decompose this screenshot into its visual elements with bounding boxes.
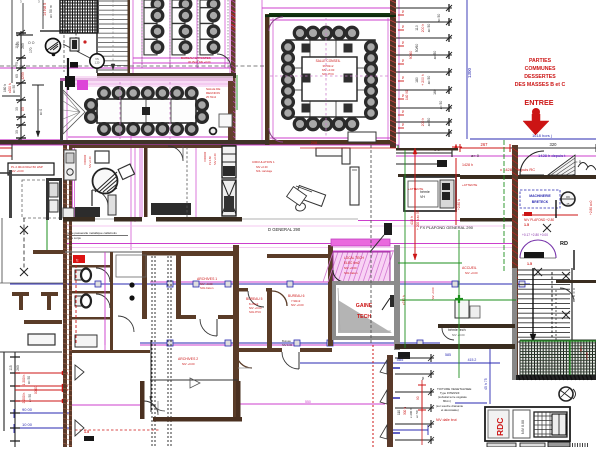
svg-text:320: 320 (550, 142, 558, 147)
svg-text:410 h: 410 h (410, 216, 414, 225)
svg-text:+ATTENTE: +ATTENTE (462, 183, 477, 187)
svg-text:ARCHIVES 2: ARCHIVES 2 (178, 357, 198, 361)
svg-text:110: 110 (397, 410, 401, 415)
svg-text:550: 550 (305, 400, 311, 404)
svg-text:SOL:béton: SOL:béton (344, 271, 358, 275)
svg-text:trame passerelle métallique ca: trame passerelle métallique caillebotis (66, 231, 117, 235)
svg-text:L 77: L 77 (52, 141, 58, 145)
svg-text:ELEC 6m2: ELEC 6m2 (344, 261, 360, 265)
svg-text:1.5: 1.5 (527, 262, 532, 266)
svg-text:200 h: 200 h (421, 24, 425, 33)
svg-text:a= 0: a= 0 (471, 153, 480, 158)
svg-text:585: 585 (445, 353, 451, 357)
svg-text:NIV 0.00: NIV 0.00 (282, 343, 293, 347)
svg-text:x 200 h: x 200 h (409, 408, 413, 418)
svg-text:300 h: 300 h (403, 407, 407, 415)
svg-text:200 h: 200 h (421, 118, 425, 127)
svg-text:260: 260 (21, 43, 25, 49)
svg-text:SOL: carrelage: SOL: carrelage (256, 170, 273, 173)
svg-text:50: 50 (401, 9, 405, 13)
svg-text:1.5: 1.5 (84, 430, 89, 434)
svg-text:PARTIES: PARTIES (529, 58, 552, 64)
svg-text:TECH: TECH (357, 314, 371, 320)
svg-text:O O: O O (28, 41, 35, 45)
svg-text:25.70m2: 25.70m2 (206, 95, 217, 99)
svg-text:90/60: 90/60 (409, 51, 413, 60)
svg-text:+ATTENTE: +ATTENTE (408, 187, 423, 191)
svg-text:50: 50 (401, 75, 405, 79)
svg-text:90 00: 90 00 (22, 407, 33, 412)
svg-text:MACHINERIE: MACHINERIE (529, 194, 551, 198)
svg-text:SOL:PVC: SOL:PVC (322, 72, 334, 76)
svg-text:NIV +0.00: NIV +0.00 (431, 287, 435, 300)
svg-text:FX PLAFOND GENERAL 290: FX PLAFOND GENERAL 290 (420, 225, 474, 230)
svg-text:180: 180 (415, 77, 419, 83)
svg-text:NIV +0.00: NIV +0.00 (11, 169, 24, 173)
svg-text:BUREAU 12 POSTES: BUREAU 12 POSTES (181, 56, 211, 60)
svg-text:60: 60 (15, 74, 19, 78)
svg-text:50: 50 (401, 40, 405, 44)
svg-text:NIV +0.00: NIV +0.00 (182, 362, 195, 366)
svg-text:170: 170 (29, 47, 33, 53)
svg-text:NIV PLAFOND +2.80: NIV PLAFOND +2.80 (524, 218, 554, 222)
svg-text:BUREAU 5: BUREAU 5 (246, 297, 263, 301)
svg-text:NIV dalle brut: NIV dalle brut (436, 418, 457, 422)
svg-text:+2.80 a=0: +2.80 a=0 (589, 200, 593, 215)
svg-text:garde corps: garde corps (66, 236, 81, 240)
svg-text:a= 50: a= 50 (427, 24, 431, 33)
svg-text:+ 200 h: + 200 h (421, 74, 425, 86)
svg-text:1300: 1300 (467, 67, 472, 78)
svg-text:NIV +0.00: NIV +0.00 (291, 303, 304, 307)
svg-text:1428 h: 1428 h (462, 163, 473, 167)
svg-text:DES MASSES B et C: DES MASSES B et C (515, 82, 566, 88)
svg-text:a= 50: a= 50 (427, 76, 431, 85)
svg-text:a= 50: a= 50 (27, 376, 31, 384)
svg-text:45 h 75: 45 h 75 (484, 378, 488, 390)
svg-text:2 200 h: 2 200 h (22, 392, 26, 403)
svg-text:NIV 0.00: NIV 0.00 (521, 420, 525, 434)
svg-text:50/60: 50/60 (415, 44, 419, 53)
svg-text:80cm): 80cm) (443, 399, 451, 403)
svg-text:10 00: 10 00 (22, 422, 33, 427)
svg-text:VIDOIR: VIDOIR (83, 154, 87, 165)
svg-text:140 90: 140 90 (405, 90, 409, 100)
svg-text:DESSERTES: DESSERTES (524, 74, 556, 80)
svg-text:a= 50: a= 50 (439, 101, 443, 110)
svg-text:BRETECK: BRETECK (532, 200, 549, 204)
svg-text:VH: VH (420, 195, 425, 199)
svg-text:REUNION: REUNION (206, 91, 220, 95)
svg-text:a= 50: a= 50 (427, 118, 431, 127)
svg-text:ENTREE: ENTREE (524, 98, 553, 107)
svg-text:1.20: 1.20 (95, 62, 100, 65)
svg-text:267: 267 (481, 142, 489, 147)
svg-text:1 200 h: 1 200 h (22, 374, 26, 385)
svg-text:RD: RD (560, 241, 568, 247)
svg-text:D GENERAL 290: D GENERAL 290 (268, 227, 301, 232)
svg-text:1428 h depuis t: 1428 h depuis t (538, 153, 566, 158)
svg-text:et décostatée): et décostatée) (441, 408, 459, 412)
svg-text:NIV +0.00: NIV +0.00 (465, 271, 478, 275)
svg-text:+2.80 h: +2.80 h (457, 199, 461, 210)
svg-text:50: 50 (401, 122, 405, 126)
svg-text:90: 90 (416, 396, 420, 400)
svg-text:50: 50 (401, 58, 405, 62)
svg-text:14 N8 5: 14 N8 5 (43, 3, 47, 16)
svg-text:SOL:PVC: SOL:PVC (249, 310, 261, 314)
svg-text:4200: 4200 (21, 72, 25, 80)
svg-text:RDC: RDC (495, 418, 505, 436)
svg-text:30: 30 (15, 130, 19, 134)
svg-text:NIV +0.00: NIV +0.00 (256, 165, 268, 169)
svg-text:208: 208 (311, 141, 317, 145)
svg-text:NIV +0.00: NIV +0.00 (452, 333, 465, 337)
svg-text:PL 0.60: PL 0.60 (208, 156, 212, 165)
svg-text:BUREAU 6: BUREAU 6 (288, 294, 305, 298)
svg-text:NIV +0.00: NIV +0.00 (213, 153, 217, 165)
svg-text:VS: VS (95, 57, 99, 61)
svg-text:a= 50: a= 50 (437, 14, 441, 23)
svg-text:a= 50: a= 50 (433, 51, 437, 60)
svg-text:SOL:béton: SOL:béton (200, 286, 214, 290)
svg-text:ACCUEIL: ACCUEIL (462, 266, 477, 270)
svg-text:hémie tech: hémie tech (448, 328, 466, 332)
svg-text:30: 30 (15, 107, 19, 111)
svg-text:160: 160 (433, 89, 437, 95)
svg-text:260: 260 (16, 365, 20, 371)
svg-text:1.5: 1.5 (524, 223, 529, 227)
svg-text:+0.17 +2.80 +0.00: +0.17 +2.80 +0.00 (522, 233, 548, 237)
svg-text:70: 70 (15, 62, 19, 66)
svg-text:CIRCULATION 1: CIRCULATION 1 (252, 160, 275, 164)
svg-text:a= 50: a= 50 (12, 85, 16, 93)
svg-text:115: 115 (15, 43, 19, 48)
svg-text:GAINE: GAINE (356, 303, 373, 309)
svg-text:36.15m2 NIV +0.00: 36.15m2 NIV +0.00 (188, 60, 211, 64)
svg-text:a= 50: a= 50 (415, 410, 419, 418)
svg-text:ARCHIVES 1: ARCHIVES 1 (197, 277, 217, 281)
svg-text:110: 110 (415, 25, 419, 31)
svg-text:Bureau: Bureau (282, 339, 291, 343)
svg-text:a= 0: a= 0 (39, 109, 43, 116)
svg-text:+ 200 h a= 50: + 200 h a= 50 (416, 210, 420, 230)
svg-text:45 h: 45 h (579, 346, 583, 352)
svg-text:+2.80: +2.80 (585, 352, 589, 360)
svg-text:OK: OK (566, 195, 570, 199)
svg-text:VIDOIR: VIDOIR (203, 151, 207, 162)
svg-text:115: 115 (9, 365, 13, 370)
svg-text:80: 80 (21, 107, 25, 111)
svg-text:160 h: 160 h (3, 84, 7, 92)
svg-text:SALLE CONSEIL: SALLE CONSEIL (316, 59, 341, 63)
svg-text:NIV +0.00: NIV +0.00 (88, 156, 92, 168)
svg-text:50: 50 (421, 376, 425, 380)
svg-text:50: 50 (401, 24, 405, 28)
svg-text:LOCAL TECH: LOCAL TECH (344, 256, 365, 260)
svg-text:COMMUNES: COMMUNES (525, 66, 556, 72)
svg-text:415.2: 415.2 (468, 358, 477, 362)
svg-text:50: 50 (401, 109, 405, 113)
svg-text:NIV +0.00: NIV +0.00 (344, 266, 357, 270)
svg-text:a= 50 m: a= 50 m (49, 5, 53, 18)
